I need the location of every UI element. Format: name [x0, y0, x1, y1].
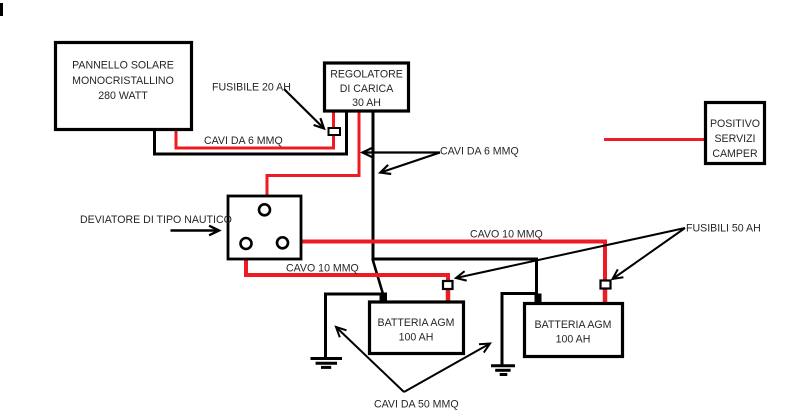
box POSITIVO SERVIZI CAMPER [706, 103, 765, 164]
svg-text:FUSIBILI 50 AH: FUSIBILI 50 AH [686, 223, 761, 235]
regulator box REGOLATORE DI CARICA 30 AH [325, 63, 409, 111]
svg-text:BATTERIA AGM: BATTERIA AGM [378, 317, 455, 329]
svg-text:CAVI DA 50 MMQ: CAVI DA 50 MMQ [374, 399, 459, 411]
battery 2 negative terminal nub [535, 294, 542, 306]
battery switch box DEVIATORE [228, 196, 301, 259]
wire: regulator negative black trunk down, right to battery 2 negative [373, 112, 537, 296]
svg-text:SERVIZI: SERVIZI [714, 133, 755, 145]
svg-text:REGOLATORE: REGOLATORE [330, 69, 403, 81]
svg-text:CAVO 10 MMQ: CAVO 10 MMQ [470, 229, 543, 241]
arrow diagonal to black trunk [380, 153, 440, 173]
arrow from label to deviatore box [171, 229, 220, 231]
arrow long from label to fuse on battery 1 [456, 228, 685, 278]
wire: battery 2 negative to ground [502, 294, 536, 366]
wire: deviatore bottom-left terminal red to battery 1 positive (CAVO 10 MMQ) [246, 244, 448, 285]
wire: regulator positive out red to deviatore top terminal [267, 112, 359, 206]
arrow from label FUSIBILE 20 AH to fuse [284, 89, 324, 129]
svg-text:MONOCRISTALLINO: MONOCRISTALLINO [72, 75, 174, 87]
wire: negative trunk branch diagonal to battery 1 negative terminal [373, 259, 384, 294]
deviatore top terminal [259, 204, 270, 215]
arrow from label to battery 2 ground wire [404, 344, 490, 393]
wire: deviatore right terminal red to battery 2 positive (CAVO 10 MMQ) [283, 242, 605, 285]
svg-text:DEVIATORE DI TIPO NAUTICO: DEVIATORE DI TIPO NAUTICO [80, 214, 232, 226]
wire: panel positive red down and right to fuse (CAVI DA 6 MMQ) [176, 112, 334, 148]
svg-text:CAVO 10 MMQ: CAVO 10 MMQ [286, 263, 359, 275]
battery 2 box BATTERIA AGM 100 AH [525, 304, 623, 357]
svg-text:PANNELLO SOLARE: PANNELLO SOLARE [72, 60, 174, 72]
fuse FUSIBILE 20 AH symbol [329, 128, 341, 135]
edge mark top-left [0, 3, 3, 16]
svg-text:CAVI DA 6 MMQ: CAVI DA 6 MMQ [204, 135, 283, 147]
legend red wire positivo servizi camper [604, 138, 704, 141]
deviatore bottom-right terminal [277, 237, 288, 248]
svg-text:FUSIBILE 20 AH: FUSIBILE 20 AH [212, 82, 291, 94]
wire: battery 1 negative to ground [326, 294, 384, 358]
arrow horizontal to red wire [363, 151, 441, 153]
svg-text:BATTERIA AGM: BATTERIA AGM [535, 319, 612, 331]
deviatore bottom-left terminal [241, 238, 252, 249]
battery 1 box BATTERIA AGM 100 AH [370, 302, 464, 354]
svg-text:CAMPER: CAMPER [712, 148, 758, 160]
wire: panel negative black down and right to regulator [155, 112, 347, 154]
arrow from label to battery 1 ground wire [336, 327, 404, 392]
ground symbol 1 [311, 359, 343, 368]
battery 1 negative terminal nub [380, 293, 388, 304]
svg-text:DI CARICA: DI CARICA [340, 83, 394, 95]
solar panel box PANNELLO SOLARE MONOCRISTALLINO 280 WATT [56, 43, 192, 130]
svg-text:100 AH: 100 AH [556, 334, 591, 346]
fuse 50 AH on battery 2 positive [601, 281, 611, 289]
ground symbol 2 [491, 366, 515, 375]
svg-text:POSITIVO: POSITIVO [710, 118, 760, 130]
arrow short from label to fuse on battery 2 [613, 228, 686, 279]
svg-text:CAVI DA 6 MMQ: CAVI DA 6 MMQ [440, 146, 519, 158]
fuse 50 AH on battery 1 positive [443, 281, 453, 289]
svg-text:100 AH: 100 AH [399, 332, 434, 344]
svg-text:280 WATT: 280 WATT [98, 90, 148, 102]
svg-text:30 AH: 30 AH [352, 97, 381, 109]
